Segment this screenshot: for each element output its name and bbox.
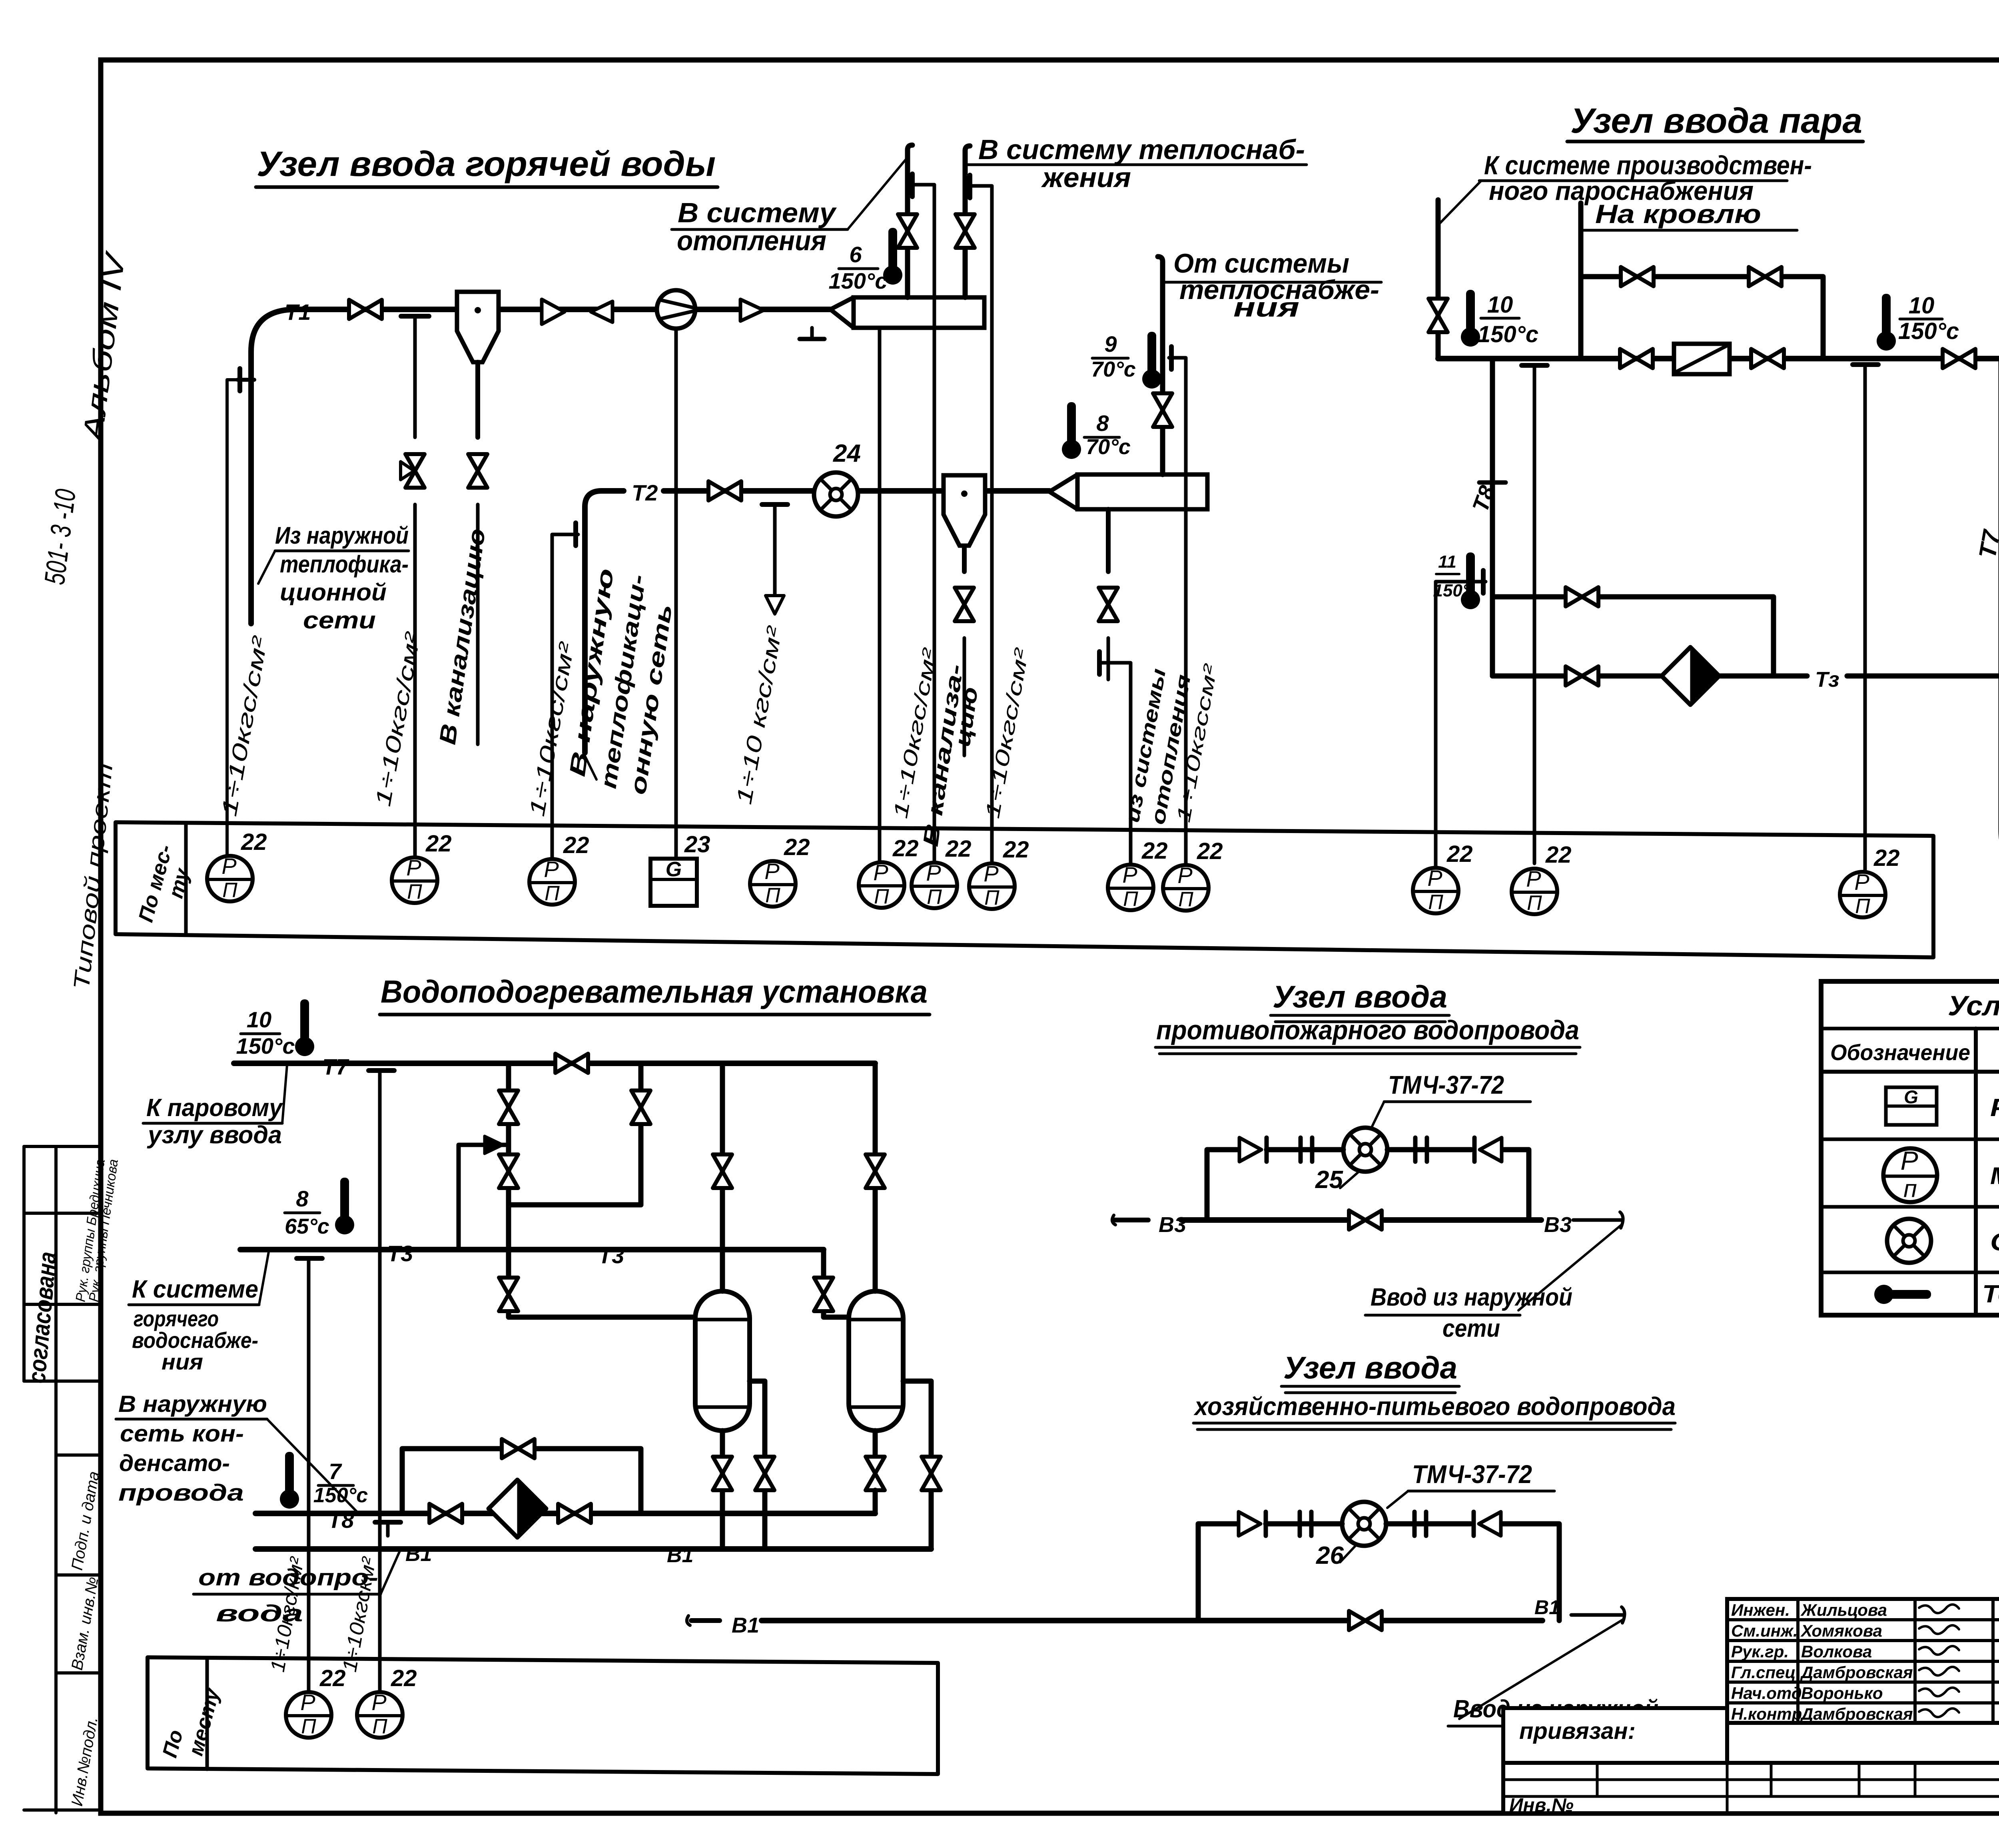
T8 bypass loop <box>402 1449 641 1513</box>
svg-text:хозяйственно-питьевого водопро: хозяйственно-питьевого водопровода <box>1193 1392 1676 1421</box>
svg-text:22: 22 <box>784 834 810 860</box>
mud trap 2 <box>944 475 985 546</box>
svg-text:ционной: ционной <box>280 579 387 606</box>
regulator G box <box>650 859 697 906</box>
svg-text:Узел ввода: Узел ввода <box>1283 1350 1457 1385</box>
left end hook <box>1112 1215 1115 1225</box>
bypass valve <box>502 1439 535 1458</box>
svg-text:От системы: От системы <box>1173 248 1349 279</box>
svg-text:Регулятор расхода и давлени: Регулятор расхода и давления <box>1990 1094 1999 1122</box>
valve before reducer <box>1620 349 1653 368</box>
svg-text:Узел ввода: Узел ввода <box>1273 979 1447 1014</box>
tap line to gauge <box>1434 604 1438 867</box>
svg-text:отопления: отопления <box>677 225 826 256</box>
fire main line B3 <box>1114 1218 1148 1222</box>
valve on T1 <box>349 300 382 319</box>
svg-text:150°с: 150°с <box>1898 318 1959 344</box>
drain tee steam 2 <box>1853 362 1878 367</box>
tank 2 <box>849 1291 903 1431</box>
manometer gauge 22 <box>529 857 575 905</box>
pipe T7 line <box>234 1061 875 1066</box>
manometer gauge 22 <box>912 860 957 909</box>
tank1 bottom drain <box>720 1431 725 1549</box>
tap line to gauge 3 <box>551 558 554 859</box>
drain tee on T1 <box>401 314 429 319</box>
legend symbol manometer <box>1883 1146 1937 1202</box>
flow arrow after pump <box>740 299 764 321</box>
legend table outer <box>1821 981 1999 1315</box>
svg-text:См.инж.: См.инж. <box>1731 1621 1798 1640</box>
riser B valve <box>956 214 975 248</box>
svg-text:теплофика-: теплофика- <box>280 551 409 578</box>
svg-text:10: 10 <box>1487 292 1513 318</box>
tank2 bottom drain <box>873 1431 878 1457</box>
svg-text:В3: В3 <box>1544 1213 1572 1237</box>
vessel 2 cone <box>1049 474 1077 509</box>
svg-text:сеть кон-: сеть кон- <box>120 1421 244 1447</box>
vessel 2 drain <box>1106 509 1111 572</box>
fire bypass line <box>1207 1150 1239 1220</box>
legend symbol thermometer <box>1874 1285 1931 1304</box>
svg-text:22: 22 <box>391 1665 417 1691</box>
T7 right corner to tank2 riser <box>873 1063 878 1131</box>
svg-text:11: 11 <box>1438 552 1456 572</box>
pointer v naruzhnuyu lower <box>267 1419 357 1512</box>
vessel 2 body <box>1077 474 1207 509</box>
domestic meter circle 26 <box>1342 1502 1386 1546</box>
svg-text:ТМЧ-37-72: ТМЧ-37-72 <box>1412 1460 1532 1489</box>
svg-text:В систему: В систему <box>678 197 837 228</box>
lower instrument strip box <box>148 1657 938 1774</box>
svg-text:Волкова: Волкова <box>1801 1642 1872 1661</box>
flange pair 2 <box>1298 1512 1302 1536</box>
check arrow flange left <box>1239 1138 1261 1162</box>
steam bypass line <box>1581 277 1823 359</box>
riser ot sistemy teplosnabzheniya <box>1158 257 1163 474</box>
riser B to heat supply system <box>965 146 970 297</box>
svg-text:22: 22 <box>1197 838 1223 864</box>
bypass pair risers from T7 <box>506 1063 511 1205</box>
manometer gauge 22 <box>969 861 1015 909</box>
svg-text:7: 7 <box>329 1459 342 1484</box>
manometer gauge 22 <box>1163 863 1209 911</box>
legend symbol G box <box>1886 1087 1937 1125</box>
pump tap line to regulator G <box>674 329 678 859</box>
svg-text:противопожарного водопровода: противопожарного водопровода <box>1156 1015 1579 1045</box>
tap on supply stub <box>237 378 254 382</box>
drain line to gauge 2 <box>413 504 417 859</box>
svg-text:22: 22 <box>425 831 452 857</box>
vessel 1 bottom tap to gauge <box>878 328 882 863</box>
valve on T2 <box>708 481 741 500</box>
pipe T2 line <box>585 491 624 507</box>
manometer gauge 22 <box>1108 862 1153 911</box>
flange on T8 drop <box>1479 480 1506 485</box>
bypass rejoin bottom <box>509 1202 641 1208</box>
pipe T1 main line <box>296 307 830 312</box>
svg-text:К паровому: К паровому <box>146 1094 283 1122</box>
svg-text:6: 6 <box>849 242 862 267</box>
T3 right corner to tank2 <box>821 1250 826 1275</box>
lower strip divider <box>205 1658 209 1769</box>
T8 valve right <box>558 1504 591 1523</box>
svg-text:25: 25 <box>1315 1166 1343 1194</box>
svg-text:В систему теплоснаб-: В систему теплоснаб- <box>978 134 1305 165</box>
svg-text:ния: ния <box>162 1349 203 1374</box>
svg-text:10: 10 <box>1909 293 1935 319</box>
svg-text:узлу ввода: узлу ввода <box>147 1121 282 1149</box>
svg-text:провода: провода <box>118 1480 244 1506</box>
condensate lower line <box>1492 674 1807 679</box>
svg-text:G: G <box>1904 1086 1918 1107</box>
tap line T7 to gauge <box>378 1071 382 1694</box>
svg-text:22: 22 <box>319 1665 346 1691</box>
valve on domestic main <box>1349 1611 1382 1630</box>
valve on fire main <box>1349 1210 1382 1230</box>
steam main line <box>1438 356 1999 361</box>
right stub <box>1573 1218 1622 1222</box>
pointer TM4 to meter <box>1370 1102 1384 1131</box>
svg-text:В1: В1 <box>732 1613 759 1637</box>
pipe elbow to supply stub <box>251 309 296 624</box>
heat exchanger diamond <box>1662 647 1719 705</box>
tank2 side outlet <box>903 1381 931 1549</box>
valve on ot-sistemy riser <box>1153 393 1172 427</box>
svg-text:Т3: Т3 <box>598 1243 624 1268</box>
bypass valve 1 <box>1621 267 1654 286</box>
svg-text:Узел ввода пара: Узел ввода пара <box>1570 101 1862 140</box>
svg-text:9: 9 <box>1104 331 1117 357</box>
svg-text:Гл.спец: Гл.спец <box>1731 1663 1796 1682</box>
svg-text:К системе: К системе <box>132 1276 258 1303</box>
svg-text:Счетчик воды: Счетчик воды <box>1990 1228 1999 1256</box>
mud trap 1 <box>457 292 499 362</box>
pointer ot vodoprovoda <box>381 1551 400 1594</box>
pressure reducer <box>1674 344 1730 374</box>
riser A to heating system <box>908 145 912 297</box>
svg-text:65°с: 65°с <box>285 1214 329 1238</box>
svg-text:В1: В1 <box>667 1544 693 1567</box>
pipe B1 line <box>255 1546 931 1552</box>
svg-text:ТМЧ-37-72: ТМЧ-37-72 <box>1388 1071 1504 1099</box>
svg-text:Н.контр: Н.контр <box>1731 1704 1802 1723</box>
svg-text:24: 24 <box>833 440 861 467</box>
svg-text:Хомякова: Хомякова <box>1800 1621 1882 1640</box>
manometer gauge 22 <box>859 860 904 908</box>
svg-text:Условные обозначения: Условные обозначения <box>1948 990 1999 1021</box>
valve on upper branch <box>1566 587 1598 606</box>
svg-text:P: P <box>1901 1146 1918 1176</box>
manometer gauge 22 <box>1413 865 1458 914</box>
tap line to gauge <box>1184 381 1188 865</box>
valve on lower line <box>1566 666 1598 686</box>
check arrow flange right <box>1480 1138 1502 1162</box>
svg-text:В наружную: В наружную <box>118 1391 267 1417</box>
riser A branch line to gauge <box>933 208 936 863</box>
svg-text:сети: сети <box>1442 1315 1500 1342</box>
T2 tap <box>573 523 578 546</box>
svg-text:8: 8 <box>296 1186 309 1211</box>
trap drain valve <box>468 454 487 488</box>
tap line T3 to gauge <box>307 1258 311 1694</box>
svg-text:10: 10 <box>247 1007 271 1032</box>
domestic bypass line <box>1198 1524 1239 1621</box>
water meter 24 <box>814 472 858 516</box>
pointer to riser A <box>848 158 907 229</box>
svg-text:Т3: Т3 <box>387 1241 413 1266</box>
trap2 drain <box>962 546 967 572</box>
svg-text:В3: В3 <box>1159 1213 1186 1237</box>
svg-text:Жильцова: Жильцова <box>1800 1601 1887 1619</box>
drain valve with arrow <box>405 454 425 488</box>
svg-text:150°с: 150°с <box>829 268 888 293</box>
svg-text:Т7: Т7 <box>322 1054 349 1079</box>
svg-text:Дамбровская: Дамбровская <box>1800 1663 1913 1682</box>
T8 valve left <box>429 1504 462 1523</box>
svg-text:сети: сети <box>303 607 376 634</box>
valve right steam <box>1943 349 1975 368</box>
steam riser left <box>1436 200 1441 359</box>
T2 outgoing stub down <box>582 507 588 753</box>
svg-text:ния: ния <box>1233 292 1299 323</box>
manometer gauge 22 <box>392 855 437 903</box>
pump circle <box>657 290 695 329</box>
pointer k parovomu <box>282 1065 287 1123</box>
drain tee on T2 <box>762 502 788 507</box>
privyazan box <box>1503 1708 1727 1763</box>
bypass valve 2 <box>1749 267 1782 286</box>
svg-text:В1: В1 <box>405 1543 432 1566</box>
svg-text:22: 22 <box>1446 841 1473 867</box>
svg-text:22: 22 <box>1141 838 1168 864</box>
svg-text:Термометр технический ртутны: Термометр технический ртутный <box>1982 1280 1999 1308</box>
svg-text:денсато-: денсато- <box>119 1450 230 1476</box>
pipe T3 line <box>240 1247 824 1252</box>
svg-text:Ввод из наружной: Ввод из наружной <box>1371 1284 1572 1311</box>
tee on T3 <box>297 1256 322 1261</box>
svg-text:привязан:: привязан: <box>1519 1718 1636 1744</box>
tank2 top riser <box>873 1131 878 1291</box>
svg-text:150°с: 150°с <box>1478 321 1538 347</box>
right stub 2 <box>1571 1613 1624 1617</box>
svg-text:70°с: 70°с <box>1086 435 1131 459</box>
tap on T8 drop <box>1481 570 1486 593</box>
svg-text:70°с: 70°с <box>1091 357 1136 381</box>
pointer from text to riser <box>1439 181 1481 224</box>
svg-text:Инжен.: Инжен. <box>1731 1601 1790 1619</box>
svg-text:На кровлю: На кровлю <box>1595 199 1761 229</box>
branch down from bypass to tank1 feed <box>506 1205 511 1250</box>
svg-text:Т2: Т2 <box>632 480 658 505</box>
riser B tap <box>968 175 972 198</box>
svg-text:Нач.отд: Нач.отд <box>1731 1684 1802 1702</box>
fire meter circle 25 <box>1343 1128 1387 1172</box>
riser B branch line to gauge <box>990 209 994 863</box>
lower gauge 2 <box>357 1690 403 1738</box>
T3 to tank1 valve drop <box>506 1250 511 1275</box>
svg-text:Рук.гр.: Рук.гр. <box>1731 1642 1789 1661</box>
svg-text:Т8: Т8 <box>328 1507 354 1533</box>
trap drain line <box>475 362 480 437</box>
lower gauge 1 <box>286 1690 331 1738</box>
stamp column grid <box>24 1145 101 1148</box>
domestic main line B1 <box>691 1618 720 1623</box>
flange pair <box>1299 1138 1303 1162</box>
signature stamp table <box>1727 1599 1999 1723</box>
svg-text:22: 22 <box>563 832 589 858</box>
manometer gauge 22 <box>1512 866 1557 915</box>
manometer gauge 22 <box>750 859 796 907</box>
svg-text:23: 23 <box>684 831 710 857</box>
condensate upper branch <box>1492 597 1774 676</box>
svg-text:Водоподогревательная установк: Водоподогревательная установка <box>381 974 928 1009</box>
flange right 2 <box>1412 1512 1417 1536</box>
svg-text:Воронько: Воронько <box>1801 1684 1883 1702</box>
regulator branch with arrow <box>459 1145 509 1250</box>
pipe T8 line <box>255 1511 875 1516</box>
vessel 1 cone <box>830 297 854 328</box>
svg-text:22: 22 <box>892 835 919 861</box>
svg-text:Узел ввода горячей воды: Узел ввода горячей воды <box>257 144 716 183</box>
heat exchanger diamond 2 <box>489 1480 546 1537</box>
valve on T7 <box>555 1054 588 1073</box>
svg-text:В1: В1 <box>1534 1596 1560 1619</box>
svg-text:Обозначение: Обозначение <box>1830 1040 1970 1065</box>
pointer to supply stub <box>258 551 275 584</box>
vessel 1 body <box>854 297 984 328</box>
privyazan grid <box>1503 1763 1999 1813</box>
svg-text:26: 26 <box>1316 1542 1344 1569</box>
pointer vvod iz naruzhnoy domestic <box>1459 1619 1624 1719</box>
valve on steam riser <box>1428 299 1448 332</box>
riser A valve <box>898 214 917 248</box>
svg-text:К системе производствен-: К системе производствен- <box>1484 150 1812 180</box>
svg-text:22: 22 <box>241 829 267 855</box>
riser A tap <box>910 174 915 197</box>
tank 1 <box>695 1291 750 1431</box>
flange right <box>1413 1138 1418 1162</box>
pointer to T2 stub <box>584 754 597 779</box>
strip divider <box>184 823 188 935</box>
tap on ot-sistemy riser <box>1169 347 1174 369</box>
svg-text:8: 8 <box>1096 411 1109 436</box>
tee under vessel 1 <box>800 337 824 341</box>
manometer gauge 22 <box>1840 869 1885 918</box>
tee on T7 <box>369 1068 394 1073</box>
svg-text:22: 22 <box>1003 837 1029 863</box>
svg-text:п: п <box>1903 1175 1917 1202</box>
legend column divider <box>1974 1029 1978 1315</box>
svg-text:22: 22 <box>945 836 972 862</box>
check valve pair on T1 <box>542 299 565 324</box>
tank1 top riser <box>720 1063 725 1291</box>
svg-text:Манометр технический показыв: Манометр технический показывающий <box>1990 1162 1999 1189</box>
drain tee steam 1 <box>1522 363 1547 368</box>
vessel2 drain tap to gauge <box>1097 652 1102 674</box>
manometer gauge 22 <box>207 853 253 902</box>
roof vent riser <box>1578 203 1584 359</box>
svg-text:Из наружной: Из наружной <box>275 522 409 549</box>
valve after reducer <box>1751 349 1784 368</box>
pointer vvod iz naruzhnoy fire <box>1518 1224 1622 1310</box>
svg-text:Инв.№: Инв.№ <box>1509 1795 1574 1816</box>
check arrow flange right 2 <box>1479 1512 1501 1536</box>
svg-text:Дамбровская: Дамбровская <box>1800 1704 1913 1723</box>
legend header row line <box>1821 1027 1999 1031</box>
tap line to gauge 1 <box>227 380 240 858</box>
T8 condensate drop <box>1490 359 1495 676</box>
pointer k sisteme <box>259 1252 269 1305</box>
instrument strip box <box>116 822 1933 957</box>
pointer TM4 to meter 2 <box>1387 1491 1408 1508</box>
tee on T8 <box>375 1520 401 1525</box>
svg-text:жения: жения <box>1041 162 1131 193</box>
svg-text:22: 22 <box>1545 842 1572 868</box>
svg-text:Т7: Т7 <box>1974 527 1999 560</box>
check arrow flange left 2 <box>1239 1512 1261 1536</box>
svg-text:22: 22 <box>1873 845 1900 871</box>
svg-text:G: G <box>666 858 682 881</box>
tank1 side outlet <box>750 1381 765 1549</box>
svg-text:150°с: 150°с <box>236 1033 295 1059</box>
svg-text:Тз: Тз <box>1815 668 1839 692</box>
legend symbol water meter <box>1887 1219 1931 1263</box>
